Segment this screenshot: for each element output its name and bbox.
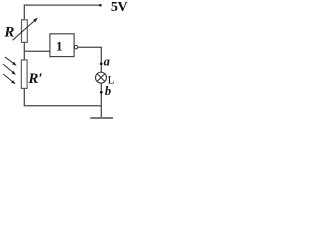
svg-text:5V: 5V [111, 0, 128, 15]
svg-text:a: a [104, 54, 110, 68]
svg-text:R: R [3, 24, 14, 40]
svg-text:R′: R′ [27, 71, 42, 87]
svg-text:1: 1 [56, 39, 63, 54]
svg-text:b: b [105, 84, 111, 98]
